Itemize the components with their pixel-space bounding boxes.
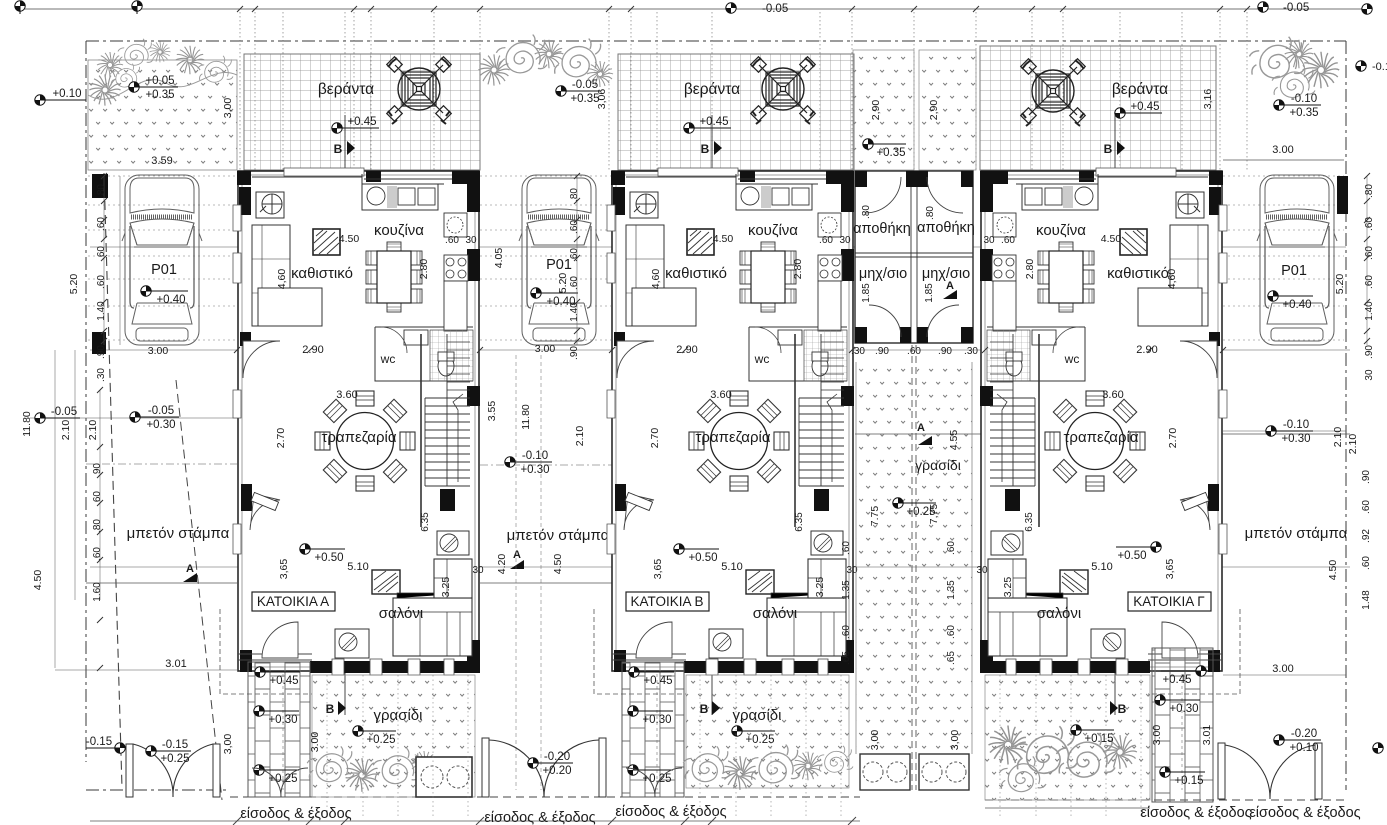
level +0.45 veranda A [332,116,379,133]
survey marker top-left [132,1,142,11]
svg-text:7.75: 7.75 [869,506,881,527]
car parking right [1257,175,1337,345]
section flag B bottom A [338,701,346,715]
pillar right boundary [1337,176,1348,214]
svg-text:4.50: 4.50 [32,570,44,591]
unit B kitchen counter top [736,184,812,210]
dim line 3.60 units [340,398,1120,400]
svg-text:.90: .90 [92,463,103,477]
svg-text:.60: .60 [841,625,852,639]
svg-text:6.35: 6.35 [1024,512,1035,532]
unit B wall columns [611,171,854,672]
svg-text:.60: .60 [96,275,107,289]
svg-text:.90: .90 [875,346,889,357]
unit B fridge [818,213,841,237]
svg-text:+0.10: +0.10 [52,88,81,100]
svg-text:A: A [186,563,194,575]
section flag B top unit B [714,141,722,155]
svg-text:κουζίνα: κουζίνα [1036,222,1086,239]
svg-text:.65: .65 [841,651,852,665]
gate right plot [1225,745,1315,799]
svg-text:1.85: 1.85 [861,283,872,303]
svg-text:-0.15: -0.15 [86,736,112,748]
plant top-left [198,56,233,82]
svg-text:γρασίδι: γρασίδι [915,457,961,473]
svg-text:4,60: 4,60 [276,269,288,290]
svg-text:1.60: 1.60 [92,582,103,602]
svg-text:γρασίδι: γρασίδι [733,707,782,724]
svg-text:2.90: 2.90 [676,344,697,356]
parking stall lines middle [480,176,611,340]
svg-text:5.20: 5.20 [1334,274,1346,295]
skylight pyramid veranda C [1021,59,1086,126]
svg-text:4,60: 4,60 [1166,269,1178,290]
plants between A and B verandas [478,54,509,85]
svg-text:καθιστικό: καθιστικό [291,265,353,282]
svg-text:.80: .80 [861,205,872,219]
section A flag strip upper [943,290,957,299]
level -0.20/+0.20 middle gate [528,751,573,777]
svg-text:.60: .60 [96,246,107,260]
unit B dining round table [689,391,789,491]
svg-text:3.60: 3.60 [336,389,357,401]
unit B kitchen counter right [818,281,841,331]
survey marker right edge [1356,61,1366,71]
svg-text:wc: wc [754,352,770,366]
veranda unit B hatch [618,54,854,170]
svg-text:είσοδος & έξοδος: είσοδος & έξοδος [615,804,726,820]
svg-text:3.01: 3.01 [165,658,186,670]
svg-text:2.90: 2.90 [302,344,323,356]
svg-text:B: B [700,702,709,716]
slanted concrete edge line [176,380,222,800]
garden C stipple [985,675,1150,800]
unit B living sofa [767,598,846,656]
svg-text:.30: .30 [964,346,978,357]
unit C kitchen table [1038,242,1094,312]
svg-text:.60: .60 [1364,275,1375,289]
pillar left low [92,332,106,354]
svg-text:3.00: 3.00 [309,732,321,753]
svg-text:30: 30 [472,565,484,576]
svg-text:3,06: 3,06 [596,89,608,110]
svg-text:3,16: 3,16 [1202,89,1214,110]
svg-text:3.55: 3.55 [486,401,498,422]
svg-text:A: A [946,280,954,292]
svg-text:+0.25: +0.25 [160,753,189,765]
level +0.40 right [1268,291,1313,311]
svg-text:+0.30: +0.30 [642,714,671,726]
unit C kitchen counter top [1022,184,1098,210]
svg-text:.60: .60 [946,541,957,555]
unit B stove [818,255,842,281]
svg-text:.80: .80 [1364,184,1375,198]
unit B wc fixtures [804,330,847,381]
unit C sitting room sofa [1170,225,1208,326]
unit C stove [992,255,1016,281]
svg-text:4.55: 4.55 [948,430,960,451]
svg-text:.60: .60 [1361,500,1372,514]
svg-text:2.80: 2.80 [792,259,804,280]
svg-text:είσοδος & έξοδος: είσοδος & έξοδος [1249,805,1360,821]
unit A wc fixtures [430,330,473,381]
unit A living sofa [393,598,472,656]
unit C wc fixtures [987,330,1030,381]
unit C garden door [1162,622,1198,658]
svg-text:.90: .90 [938,346,952,357]
middle strip columns [855,171,973,343]
garden C plants [989,726,1028,765]
svg-text:+0.45: +0.45 [699,116,728,128]
garden A plants [307,746,354,781]
svg-text:καθιστικό: καθιστικό [1107,265,1169,282]
section A flag strip lower [918,436,932,445]
svg-text:3.25: 3.25 [814,577,826,598]
svg-text:.80: .80 [925,206,936,220]
unit A outer walls [238,171,479,671]
svg-text:P01: P01 [1281,263,1307,279]
svg-text:7,75: 7,75 [928,504,940,525]
svg-text:αποθήκη: αποθήκη [853,221,911,237]
garden A planter box [416,757,472,797]
svg-text:.60: .60 [907,346,921,357]
svg-text:.60: .60 [819,235,833,246]
level -0.10/+0.30 right strip [1266,419,1313,445]
section line A mid [480,582,612,584]
svg-text:4.50: 4.50 [713,233,734,245]
svg-text:+0.35: +0.35 [1289,107,1318,119]
label box KATOIKIA B [626,592,709,611]
property split dashed line [912,345,916,790]
level +0.40 left [141,286,188,306]
svg-text:+0.15: +0.15 [1084,733,1113,745]
svg-text:4,60: 4,60 [650,269,662,290]
unit A dining round table [315,391,415,491]
svg-text:σαλόνι: σαλόνι [1037,605,1081,622]
unit A water heater closet [437,531,469,555]
svg-text:4.50: 4.50 [1327,560,1339,581]
svg-text:3,65: 3,65 [1164,559,1176,580]
svg-text:30: 30 [976,565,988,576]
svg-text:B: B [1118,702,1127,716]
svg-text:ΚΑΤΟΙΚΙΑ Β: ΚΑΤΟΙΚΙΑ Β [630,594,703,609]
unit B mirror square [687,229,714,255]
svg-text:-0.20: -0.20 [544,751,570,763]
unit A bottom-left porch wall [238,654,312,660]
svg-text:+0.45: +0.45 [1162,674,1191,686]
svg-text:11.80: 11.80 [21,411,33,437]
svg-text:2.70: 2.70 [1167,428,1179,449]
svg-text:μπετόν στάμπα: μπετόν στάμπα [507,527,610,544]
svg-text:.30: .30 [851,346,865,357]
unit A wall columns [237,171,480,672]
mech room door arcs [869,305,901,337]
svg-text:+0.25: +0.25 [366,734,395,746]
garden B plants [683,746,730,781]
unit B porch dashed outline [594,609,686,694]
veranda unit C hatch [980,46,1216,170]
unit A garden door [262,622,298,658]
unit B interior wall kitchen/wc [736,174,847,381]
svg-text:σαλόνι: σαλόνι [753,605,797,622]
svg-text:2.10: 2.10 [87,420,99,441]
svg-text:+0.20: +0.20 [542,765,571,777]
top-left garden edge curve [88,72,237,99]
svg-text:κουζίνα: κουζίνα [374,222,424,239]
svg-text:2.70: 2.70 [275,428,287,449]
svg-text:-0.15: -0.15 [162,739,188,751]
svg-text:3.01: 3.01 [1201,725,1213,746]
car parking middle [519,175,599,345]
unit A interior wall kitchen/wc [362,174,473,381]
plant top-left [176,46,205,75]
svg-text:30: 30 [983,235,995,246]
svg-text:3.00: 3.00 [1151,725,1163,746]
parking stall lines right [1223,176,1344,340]
svg-text:P01: P01 [151,262,177,278]
svg-text:-0.10: -0.10 [1283,419,1309,431]
svg-text:11.80: 11.80 [520,404,532,430]
svg-text:+0.50: +0.50 [314,552,343,564]
svg-text:βεράντα: βεράντα [684,81,740,98]
svg-text:-0.05: -0.05 [148,405,174,417]
svg-text:+0.25: +0.25 [745,734,774,746]
unit B electrical panel [630,192,658,218]
top-left grass area hatch [88,60,237,170]
svg-text:είσοδος & έξοδος: είσοδος & έξοδος [484,810,595,825]
plot boundary bottom-left [86,789,230,791]
unit A entry door upper [243,341,280,378]
garden B gate arc [626,768,682,797]
svg-text:1.35: 1.35 [841,580,852,600]
svg-text:2.10: 2.10 [60,420,72,441]
garden C brick path [1152,648,1213,802]
level -0.20/+0.10 right gate [1274,728,1321,754]
svg-text:B: B [701,142,710,156]
unit C dining round table [1045,391,1145,491]
svg-text:B: B [326,702,335,716]
unit B fireplace [746,570,774,594]
level -0.10/+0.30 middle strip [505,450,552,476]
svg-text:+0.15: +0.15 [1174,775,1203,787]
svg-text:2,90: 2,90 [870,100,882,121]
level +0.25 strip [893,498,936,518]
unit C interior wall kitchen/wc [987,174,1098,381]
svg-text:+0.45: +0.45 [347,116,376,128]
level +0.35 strip [863,139,906,159]
level +0.50 unit C [1116,542,1161,562]
unit C mirror square [1120,229,1147,255]
unit A windows left wall [233,205,241,554]
unit A sitting room sofa [252,225,290,326]
unit A kitchen table [366,242,422,312]
unit B entry door upper [617,341,654,378]
level +0.45 veranda B [684,116,731,133]
unit B interior door [624,494,654,530]
unit A bottom wall with windows [310,661,480,673]
svg-text:1.48: 1.48 [1361,590,1372,610]
level +0.50 unit B [674,544,719,564]
plant top-left [110,64,141,87]
unit C bottom-left porch wall [1148,654,1222,660]
svg-text:.92: .92 [1361,529,1372,543]
stipple strip top between B and C (left) [853,50,914,170]
svg-text:3,65: 3,65 [652,559,664,580]
garden B levels [629,667,674,687]
long dim line y=247 [90,246,1346,248]
svg-text:3.59: 3.59 [151,155,172,167]
svg-text:2.10: 2.10 [1347,434,1359,455]
svg-text:wc: wc [1064,352,1080,366]
plant top-left [97,52,123,78]
svg-text:+0.35: +0.35 [876,147,905,159]
svg-text:+0.10: +0.10 [1289,742,1318,754]
section flag B bottom B [712,701,720,715]
level -0.15/+0.25 left gate [146,739,191,765]
svg-text:καθιστικό: καθιστικό [665,265,727,282]
storage door arcs [865,177,901,213]
svg-text:5.10: 5.10 [347,561,368,573]
svg-text:4.05: 4.05 [493,248,505,269]
svg-text:2.70: 2.70 [649,428,661,449]
svg-text:.90: .90 [1364,345,1375,359]
unit B top wall window [658,168,738,176]
svg-text:5.10: 5.10 [1091,561,1112,573]
svg-text:.60: .60 [1364,246,1375,260]
svg-text:-0.10: -0.10 [522,450,548,462]
level -0.05/+0.30 left strip [130,405,179,431]
svg-text:3.60: 3.60 [1102,389,1123,401]
svg-text:A: A [513,549,521,561]
unit C entry door upper [1180,341,1217,378]
unit A top wall window [284,168,364,176]
svg-text:4.20: 4.20 [496,554,508,575]
pillar top-left boundary [92,174,108,198]
gate left plot [133,744,213,797]
svg-text:2,90: 2,90 [928,100,940,121]
unit C wall columns [980,171,1223,672]
garden A gate arc [252,768,308,797]
aux level lines [30,418,1346,431]
skylight pyramid veranda B [751,57,816,124]
svg-text:κουζίνα: κουζίνα [748,222,798,239]
svg-text:3,00: 3,00 [949,730,961,751]
unit B tv bench [709,629,743,658]
svg-text:.80: .80 [96,184,107,198]
unit A porch dashed outline [220,609,312,694]
middle grass strip stipple [856,362,911,754]
svg-text:4.50: 4.50 [339,233,360,245]
unit B outer walls [612,171,853,671]
svg-text:5.20: 5.20 [68,274,80,295]
svg-text:3.25: 3.25 [440,577,452,598]
plot boundary right [1345,41,1347,790]
survey marker top far-right [1362,4,1372,14]
svg-text:βεράντα: βεράντα [1112,81,1168,98]
stipple strip top between B and C (right) [919,50,976,170]
svg-text:4.50: 4.50 [1101,233,1122,245]
svg-text:A: A [917,422,925,434]
unit C living sofa [988,598,1067,656]
survey marker top-middle [726,3,736,13]
garden B brick path [622,662,684,797]
svg-text:5.10: 5.10 [721,561,742,573]
svg-text:2.80: 2.80 [1024,259,1036,280]
long dim line y=567 [90,566,1350,568]
extension lines top [240,12,1247,170]
unit B stair [799,334,844,486]
unit B bottom-left porch wall [612,654,686,660]
svg-text:2.10: 2.10 [574,426,586,447]
svg-text:2.90: 2.90 [1136,344,1157,356]
car parking left [122,175,202,345]
section line A left [86,582,237,584]
svg-text:-0.05: -0.05 [51,406,77,418]
unit A mirror square [313,229,340,255]
level -0.05 left edge [35,406,80,423]
svg-text:+0.45: +0.45 [269,675,298,687]
svg-text:30: 30 [839,235,851,246]
svg-text:.60: .60 [569,276,580,290]
svg-text:+0.35: +0.35 [145,89,174,101]
skylight pyramid veranda A [387,57,452,124]
svg-text:2.10: 2.10 [1332,427,1344,448]
unit B sitting room sofa [626,225,664,326]
unit A fireplace [372,570,400,594]
svg-text:.60: .60 [445,235,459,246]
svg-text:τραπεζαρία: τραπεζαρία [322,429,397,446]
garden C levels [1161,666,1206,686]
unit C outer walls [981,171,1222,671]
vertical reference lines through units [283,170,1182,790]
svg-text:+0.05: +0.05 [145,75,174,87]
svg-text:.60: .60 [841,541,852,555]
level -0.15 far left [86,736,125,753]
garden A brick path [248,662,310,797]
svg-text:+0.40: +0.40 [156,294,185,306]
unit C bottom wall with windows [980,661,1150,673]
unit C top wall window [1096,168,1176,176]
unit B kitchen table [740,242,796,312]
garden A stipple [312,675,475,797]
section flag B top unit C [1117,141,1125,155]
top dimension line [20,8,1367,10]
svg-text:B: B [334,142,343,156]
section A flag left [183,573,197,582]
svg-text:.60: .60 [1361,556,1372,570]
svg-text:+0.30: +0.30 [520,464,549,476]
unit A kitchen counter top [362,184,438,210]
unit A electrical panel [256,192,284,218]
svg-text:μπετόν στάμπα: μπετόν στάμπα [1245,525,1348,542]
unit C porch dashed outline [1148,609,1240,694]
survey marker top far-left [15,1,25,11]
svg-text:+0.50: +0.50 [1117,550,1146,562]
unit A stair [425,334,470,486]
svg-text:1.35: 1.35 [946,580,957,600]
svg-text:3.25: 3.25 [1002,577,1014,598]
svg-text:3,00: 3,00 [222,98,234,119]
svg-text:.90: .90 [1361,470,1372,484]
plot boundary top [86,40,1346,42]
svg-text:30: 30 [465,235,477,246]
svg-text:είσοδος & έξοδος: είσοδος & έξοδος [240,806,351,822]
svg-text:-0.05: -0.05 [762,3,788,15]
svg-text:3.00: 3.00 [1272,663,1293,675]
unit C fridge [993,213,1016,237]
svg-text:3,00: 3,00 [869,730,881,751]
strip planter boxes [860,754,910,790]
